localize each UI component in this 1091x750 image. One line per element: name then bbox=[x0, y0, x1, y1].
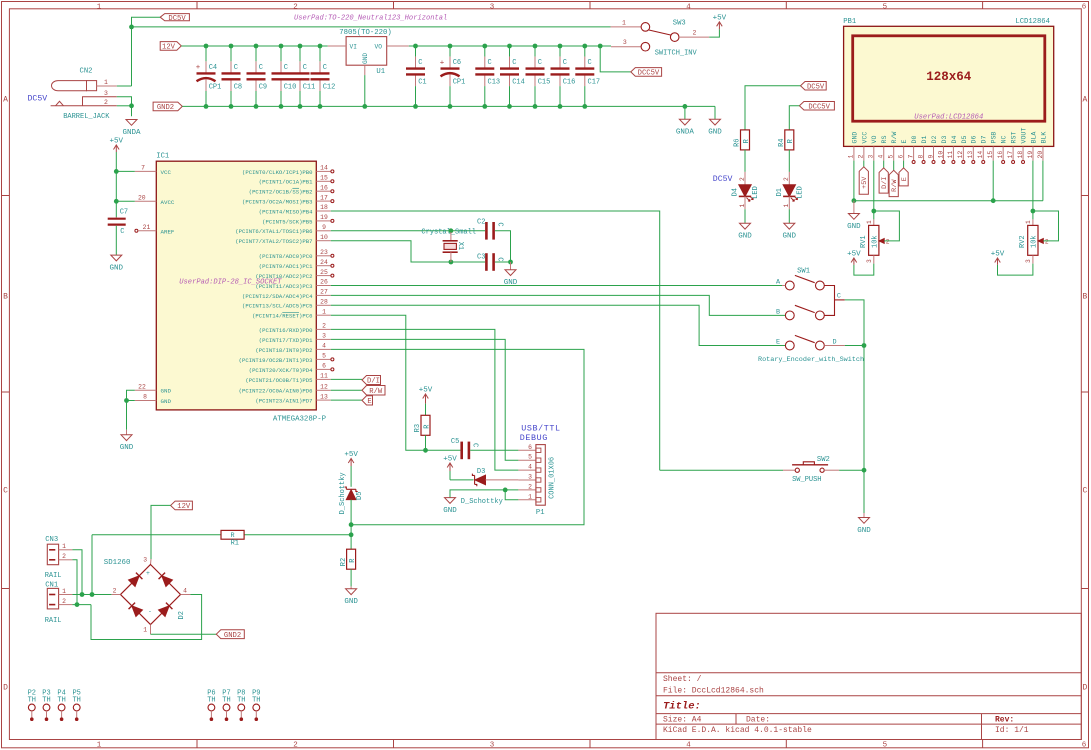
svg-text:9: 9 bbox=[927, 155, 934, 159]
svg-text:D: D bbox=[832, 339, 836, 347]
svg-text:GND: GND bbox=[738, 233, 752, 241]
svg-text:C1: C1 bbox=[418, 79, 426, 87]
global label DC5V right bbox=[801, 82, 827, 91]
svg-text:7: 7 bbox=[907, 155, 914, 159]
svg-text:C11: C11 bbox=[303, 84, 316, 92]
junction C10 top rail bbox=[279, 44, 284, 49]
svg-text:2: 2 bbox=[858, 155, 865, 159]
power symbol +5V at RV1 bbox=[853, 258, 855, 265]
svg-text:AVCC: AVCC bbox=[161, 199, 175, 206]
resistor R1 horizontal bbox=[221, 530, 244, 539]
wire RV2 pin3 to +5V bbox=[998, 264, 1033, 276]
wire PD1 to P1 pin5 bbox=[331, 339, 519, 460]
global label D/I at LCD bbox=[879, 168, 888, 193]
wire to DCC5V label bbox=[600, 46, 631, 72]
svg-text:D/I: D/I bbox=[367, 378, 380, 386]
IC1 pin 9 PB6 bbox=[316, 230, 331, 232]
IC1 pin 1 PC6 bbox=[316, 314, 331, 316]
svg-text:DCC5V: DCC5V bbox=[808, 103, 830, 111]
svg-text:R4: R4 bbox=[778, 138, 786, 146]
svg-text:KiCad E.D.A. kicad 4.0.1-stab: KiCad E.D.A. kicad 4.0.1-stable bbox=[663, 726, 812, 735]
global label DCC5V right bbox=[799, 102, 834, 111]
svg-text:+5V: +5V bbox=[344, 451, 358, 459]
junction C9 bottom rail bbox=[254, 104, 259, 109]
svg-text:1: 1 bbox=[62, 543, 66, 550]
svg-text:4: 4 bbox=[322, 343, 326, 350]
svg-text:14: 14 bbox=[977, 151, 984, 159]
svg-text:(PCINT10/ADC2)PC2: (PCINT10/ADC2)PC2 bbox=[255, 273, 312, 280]
svg-text:File: DccLcd12864.sch: File: DccLcd12864.sch bbox=[663, 687, 764, 696]
capacitor C14 bbox=[509, 46, 511, 57]
wire DC5V label to vertical bbox=[132, 17, 161, 86]
wire R1 net down to CN1 pin1 bbox=[91, 535, 93, 595]
LCD module PB1 body bbox=[844, 26, 1054, 146]
crystal X1 bbox=[450, 232, 452, 241]
LCD unconnected pin circles bbox=[912, 161, 915, 164]
junction C12 top rail bbox=[318, 44, 323, 49]
svg-text:1: 1 bbox=[1025, 220, 1032, 224]
svg-text:6: 6 bbox=[1082, 741, 1087, 749]
junction C13 top rail bbox=[482, 44, 487, 49]
svg-text:6: 6 bbox=[897, 155, 904, 159]
svg-text:USB/TTL: USB/TTL bbox=[521, 423, 560, 433]
svg-text:C17: C17 bbox=[588, 79, 601, 87]
svg-text:C: C bbox=[495, 222, 503, 226]
wire 7805 VO pin bbox=[387, 45, 409, 47]
power symbol GND below crystal bbox=[510, 262, 512, 270]
wire 12V label to bridge bbox=[151, 505, 171, 559]
power symbol GND below SW2 bbox=[863, 513, 865, 518]
capacitor C16 bbox=[559, 46, 561, 57]
capacitor C8 bbox=[230, 46, 232, 61]
svg-text:10k: 10k bbox=[872, 235, 880, 248]
svg-text:DC5V: DC5V bbox=[713, 175, 733, 184]
junction C16 bottom rail bbox=[558, 104, 563, 109]
global label +5V at LCD pin2 bbox=[859, 167, 868, 194]
capacitor C17 bbox=[584, 46, 586, 57]
svg-text:E: E bbox=[901, 177, 909, 181]
wire PD2 to D5 node bbox=[331, 349, 584, 524]
svg-text:+5V: +5V bbox=[110, 138, 124, 146]
svg-text:R/W: R/W bbox=[369, 388, 383, 396]
svg-text:B: B bbox=[776, 309, 780, 317]
svg-text:10: 10 bbox=[937, 151, 944, 159]
svg-text:4: 4 bbox=[686, 741, 691, 749]
svg-text:2: 2 bbox=[693, 30, 697, 37]
IC1 pin 23 PC0 bbox=[316, 255, 331, 257]
svg-text:UserPad:LCD12864: UserPad:LCD12864 bbox=[914, 114, 983, 122]
wire R3 to node bbox=[425, 435, 427, 450]
svg-text:GNDA: GNDA bbox=[122, 129, 141, 137]
capacitor C10 bbox=[280, 46, 282, 61]
junction C15 bottom rail bbox=[533, 104, 538, 109]
svg-text:C3: C3 bbox=[477, 254, 485, 262]
svg-text:D0: D0 bbox=[911, 136, 918, 144]
wire PC5 to SW1 E bbox=[331, 305, 786, 345]
svg-text:D4: D4 bbox=[732, 188, 740, 196]
svg-text:DC5V: DC5V bbox=[807, 83, 825, 91]
svg-text:CN1: CN1 bbox=[45, 582, 58, 590]
frame row ticks right bbox=[1081, 195, 1088, 197]
IC U1 ATMEGA328P body bbox=[156, 161, 316, 410]
global label 12V bottom bbox=[171, 501, 193, 510]
power symbol +5V at D5 bbox=[350, 459, 352, 467]
svg-text:IC1: IC1 bbox=[156, 152, 169, 160]
potentiometer RV1 bbox=[873, 219, 875, 225]
wire R6 to D4 bbox=[744, 150, 746, 172]
junction SW2 GND net bbox=[862, 468, 867, 473]
svg-text:UserPad:TO-220_Neutral123_Hori: UserPad:TO-220_Neutral123_Horizontal bbox=[294, 15, 447, 23]
svg-text:(PCINT8/ADC0)PC0: (PCINT8/ADC0)PC0 bbox=[259, 253, 313, 260]
svg-text:U1: U1 bbox=[376, 68, 385, 76]
wire LCD pin19 BLA to RV2 bbox=[1032, 161, 1034, 220]
wire 12V rail bbox=[181, 45, 327, 47]
regulator U1 7805 bbox=[346, 37, 387, 66]
svg-text:Date:: Date: bbox=[746, 715, 770, 724]
resistor R4 bbox=[785, 130, 794, 150]
svg-text:E: E bbox=[367, 398, 371, 406]
svg-text:(PCINT18/INT0)PD2: (PCINT18/INT0)PD2 bbox=[255, 347, 312, 354]
svg-text:3: 3 bbox=[868, 155, 875, 159]
svg-text:GNDA: GNDA bbox=[676, 129, 695, 137]
svg-text:26: 26 bbox=[320, 279, 328, 286]
global label GND2 top bbox=[153, 102, 182, 111]
svg-text:2: 2 bbox=[739, 177, 746, 181]
svg-text:SW1: SW1 bbox=[797, 268, 810, 276]
wire CN3 pin2 down bbox=[72, 560, 77, 605]
svg-text:7: 7 bbox=[141, 165, 145, 172]
wire DC5V label to R6 bbox=[745, 86, 801, 130]
svg-text:C: C bbox=[588, 59, 592, 67]
svg-text:LCD12864: LCD12864 bbox=[1015, 18, 1050, 26]
capacitor C12 bbox=[319, 46, 321, 61]
junction DCC5V branch bbox=[598, 44, 603, 49]
svg-text:2: 2 bbox=[62, 553, 66, 560]
svg-text:(PCINT13/SCL/ADC5)PC5: (PCINT13/SCL/ADC5)PC5 bbox=[242, 303, 313, 310]
svg-text:C: C bbox=[538, 59, 542, 67]
svg-text:(PCINT9/ADC1)PC1: (PCINT9/ADC1)PC1 bbox=[259, 263, 313, 270]
wire GND2 rail bbox=[182, 105, 715, 107]
svg-text:C: C bbox=[512, 59, 516, 67]
power symbol GND below D4 bbox=[740, 223, 751, 229]
power symbol +5V at R3 bbox=[425, 394, 427, 404]
junction C17 bottom rail bbox=[582, 104, 587, 109]
wire PB6 to crystal bbox=[331, 230, 485, 232]
switch SW2 SW_PUSH bbox=[660, 469, 783, 471]
junction C16 top rail bbox=[558, 44, 563, 49]
svg-text:C: C bbox=[495, 257, 503, 261]
IC1 pin 12 PD6 bbox=[316, 389, 331, 391]
svg-text:SW2: SW2 bbox=[817, 456, 830, 464]
svg-text:SD1260: SD1260 bbox=[104, 559, 131, 567]
svg-text:C14: C14 bbox=[512, 79, 525, 87]
wire D5 to node bbox=[350, 500, 352, 550]
svg-text:TH: TH bbox=[222, 697, 230, 705]
switch SW3 SWITCH_INV bbox=[611, 26, 642, 28]
svg-text:TH: TH bbox=[252, 697, 260, 705]
wire C5 to P1 pin6 bbox=[470, 449, 518, 451]
wire C3 to GND node bbox=[495, 261, 511, 263]
wire CN1 pin2 bbox=[72, 604, 91, 606]
frame column ticks top bbox=[196, 2, 198, 9]
svg-text:8: 8 bbox=[917, 155, 924, 159]
svg-text:3: 3 bbox=[104, 90, 108, 97]
IC1 pin 27 PC4 bbox=[316, 294, 331, 296]
junction P1 pin1 pin2 bbox=[503, 488, 508, 493]
frame column ticks bottom bbox=[196, 740, 198, 748]
svg-text:E: E bbox=[901, 140, 908, 144]
wire DC5V horizontal to SW3 pin1 bbox=[132, 26, 611, 28]
svg-text:CN3: CN3 bbox=[45, 536, 58, 544]
wire R1 row bbox=[92, 534, 221, 536]
junction C9 top rail bbox=[254, 44, 259, 49]
resistor R3 bbox=[421, 415, 430, 435]
svg-text:2: 2 bbox=[783, 177, 790, 181]
svg-text:20: 20 bbox=[1037, 151, 1044, 159]
wire SW2 to GND vertical bbox=[839, 469, 864, 471]
svg-text:R/W: R/W bbox=[891, 132, 898, 144]
diode D3 schottky bbox=[472, 474, 476, 487]
svg-text:C: C bbox=[3, 487, 8, 496]
svg-text:PSB: PSB bbox=[991, 132, 998, 144]
svg-text:25: 25 bbox=[320, 269, 328, 276]
svg-text:RAIL: RAIL bbox=[45, 572, 62, 580]
wire 7805 VI pin bbox=[328, 45, 346, 47]
wire R2 to GND bbox=[350, 569, 352, 586]
svg-text:D6: D6 bbox=[971, 136, 978, 144]
svg-text:D7: D7 bbox=[981, 136, 988, 144]
svg-text:(PCINT1/OC1A)PB1: (PCINT1/OC1A)PB1 bbox=[259, 179, 313, 186]
junction CP1 top rail bbox=[448, 44, 453, 49]
junction CP1 bottom rail bbox=[204, 104, 209, 109]
svg-text:B: B bbox=[3, 293, 8, 302]
svg-text:2: 2 bbox=[293, 741, 298, 749]
svg-text:TH: TH bbox=[42, 697, 50, 705]
svg-text:3: 3 bbox=[866, 259, 873, 263]
capacitor C2 bbox=[485, 222, 488, 240]
junction RV1 top bbox=[871, 209, 876, 214]
svg-text:(PCINT23/AIN1)PD7: (PCINT23/AIN1)PD7 bbox=[255, 398, 312, 405]
junction CN1 pin1 a bbox=[80, 592, 85, 597]
svg-text:C: C bbox=[234, 64, 238, 72]
svg-text:13: 13 bbox=[967, 151, 974, 159]
global label GND2 bottom bbox=[216, 630, 244, 639]
wire PB7 to crystal bottom bbox=[331, 241, 485, 262]
svg-text:(PCINT11/ADC3)PC3: (PCINT11/ADC3)PC3 bbox=[255, 283, 312, 290]
svg-text:VCC: VCC bbox=[861, 132, 868, 144]
svg-text:AREF: AREF bbox=[161, 228, 175, 235]
wire LCD pin4 RS bbox=[883, 161, 885, 173]
svg-text:12: 12 bbox=[320, 384, 328, 391]
svg-text:C: C bbox=[120, 228, 124, 236]
junction C8 top rail bbox=[229, 44, 234, 49]
svg-text:19: 19 bbox=[320, 214, 328, 221]
svg-text:4: 4 bbox=[528, 464, 532, 471]
svg-text:Title:: Title: bbox=[663, 701, 701, 713]
svg-text:5: 5 bbox=[888, 155, 895, 159]
IC1 pin 18 PB4 bbox=[316, 210, 331, 212]
svg-text:21: 21 bbox=[143, 224, 151, 231]
capacitor C7 bbox=[115, 217, 117, 218]
wire PC3 to SW1 A bbox=[331, 285, 786, 287]
IC1 pin 2 PD0 bbox=[316, 328, 331, 330]
svg-text:12: 12 bbox=[957, 151, 964, 159]
svg-text:5: 5 bbox=[322, 353, 326, 360]
IC1 pin GND 8 bbox=[135, 400, 157, 402]
svg-text:C: C bbox=[837, 292, 841, 300]
svg-text:7805(TO-220): 7805(TO-220) bbox=[339, 29, 392, 37]
svg-text:+5V: +5V bbox=[713, 14, 727, 22]
svg-text:+5V: +5V bbox=[847, 251, 861, 259]
svg-text:Size: A4: Size: A4 bbox=[663, 715, 702, 724]
junction CN1 pin1 b bbox=[90, 592, 95, 597]
svg-text:C7: C7 bbox=[120, 209, 128, 217]
wire C2 to corner bbox=[495, 231, 511, 262]
svg-text:C4: C4 bbox=[209, 64, 217, 72]
svg-text:(PCINT0/CLKO/ICP1)PB0: (PCINT0/CLKO/ICP1)PB0 bbox=[242, 169, 313, 176]
capacitor C15 bbox=[534, 46, 536, 57]
svg-text:(PCINT17/TXD)PD1: (PCINT17/TXD)PD1 bbox=[259, 337, 313, 344]
svg-text:RS: RS bbox=[881, 136, 888, 144]
svg-text:1: 1 bbox=[848, 155, 855, 159]
svg-text:Rotary_Encoder_with_Switch: Rotary_Encoder_with_Switch bbox=[758, 356, 864, 364]
svg-text:(PCINT2/OC1B/SS)PB2: (PCINT2/OC1B/SS)PB2 bbox=[249, 189, 313, 196]
wire CN3 pin1 down bbox=[72, 550, 82, 595]
wire +5V to D5 bbox=[350, 466, 352, 487]
svg-text:11: 11 bbox=[320, 373, 328, 380]
svg-text:(PCINT5/SCK)PB5: (PCINT5/SCK)PB5 bbox=[262, 218, 312, 225]
svg-text:PB1: PB1 bbox=[843, 18, 856, 26]
global label D/I at IC1 bbox=[362, 376, 381, 385]
junction R3 C5 bbox=[423, 448, 428, 453]
svg-text:TH: TH bbox=[207, 697, 215, 705]
svg-text:D1: D1 bbox=[921, 136, 928, 144]
svg-text:C5: C5 bbox=[451, 438, 459, 446]
svg-text:3: 3 bbox=[490, 4, 495, 12]
wire GND drop right bbox=[714, 106, 716, 119]
connector CN2 barrel jack bbox=[52, 81, 87, 91]
svg-text:X1: X1 bbox=[456, 242, 464, 250]
svg-text:2: 2 bbox=[62, 598, 66, 605]
svg-text:VOUT: VOUT bbox=[1020, 128, 1027, 144]
svg-text:BARREL_JACK: BARREL_JACK bbox=[63, 113, 110, 121]
IC1 pin 13 PD7 bbox=[316, 399, 331, 401]
wire D4 to GND bbox=[744, 209, 746, 223]
IC1 pin 4 PD2 bbox=[316, 348, 331, 350]
wire GNDA drop bbox=[684, 106, 686, 119]
wire LCD pin6 E bbox=[903, 161, 905, 173]
connector CN3 bbox=[47, 544, 58, 565]
svg-text:1: 1 bbox=[528, 493, 532, 500]
junction C14 top rail bbox=[507, 44, 512, 49]
svg-text:4: 4 bbox=[686, 4, 691, 12]
power symbol GNDA below CN2 bbox=[126, 120, 137, 126]
wire bridge pin1 stub bbox=[150, 625, 152, 635]
IC1 pin 26 PC3 bbox=[316, 285, 331, 287]
wire LCD GND bus bbox=[854, 200, 1043, 202]
svg-text:DEBUG: DEBUG bbox=[520, 433, 548, 443]
svg-text:VI: VI bbox=[350, 44, 358, 51]
svg-text:+5V: +5V bbox=[861, 176, 869, 189]
svg-text:D2: D2 bbox=[178, 611, 186, 619]
IC1 pin 15 PB1 bbox=[316, 180, 331, 182]
svg-text:D5: D5 bbox=[961, 136, 968, 144]
wire bridge pin4 stub bbox=[181, 594, 191, 596]
junction CP1 bottom rail bbox=[448, 104, 453, 109]
title block row dividers bbox=[656, 672, 1081, 674]
junction C13 bottom rail bbox=[482, 104, 487, 109]
svg-text:BLA: BLA bbox=[1030, 132, 1037, 144]
wire SW3 pin2 to +5V bbox=[709, 29, 719, 37]
svg-text:D2: D2 bbox=[931, 136, 938, 144]
svg-text:C: C bbox=[284, 64, 288, 72]
svg-text:GND: GND bbox=[362, 53, 369, 64]
svg-text:C12: C12 bbox=[323, 84, 336, 92]
wire DCC5V rail after regulator bbox=[409, 45, 611, 47]
svg-text:(PCINT14/RESET)PC6: (PCINT14/RESET)PC6 bbox=[252, 313, 312, 320]
wire CN1 pin1 to bridge bbox=[72, 594, 111, 596]
svg-text:C2: C2 bbox=[477, 219, 485, 227]
svg-text:C: C bbox=[563, 59, 567, 67]
IC1 pin 24 PC1 bbox=[316, 265, 331, 267]
wire CN2 pin1 to DC5V vertical bbox=[117, 85, 132, 87]
IC1 pin 14 PB0 bbox=[316, 170, 331, 172]
svg-text:4: 4 bbox=[183, 588, 187, 595]
svg-text:TH: TH bbox=[28, 697, 36, 705]
frame row ticks left bbox=[2, 195, 10, 197]
svg-text:RST: RST bbox=[1011, 132, 1018, 144]
svg-text:C9: C9 bbox=[259, 84, 267, 92]
svg-text:10k: 10k bbox=[1031, 235, 1039, 248]
capacitor C11 bbox=[299, 46, 301, 61]
svg-text:A: A bbox=[1082, 96, 1087, 105]
wire +5V to D3 bbox=[449, 471, 451, 480]
wire R4 to D1 bbox=[788, 150, 790, 172]
svg-text:GND: GND bbox=[161, 388, 172, 395]
svg-text:(PCINT7/XTAL2/TOSC2)PB7: (PCINT7/XTAL2/TOSC2)PB7 bbox=[235, 238, 312, 245]
svg-text:Id: 1/1: Id: 1/1 bbox=[995, 726, 1029, 735]
svg-text:2: 2 bbox=[528, 483, 532, 490]
junction GNDA drop bbox=[683, 104, 688, 109]
svg-text:1: 1 bbox=[97, 4, 102, 12]
power symbol +5V at D3 bbox=[449, 463, 451, 471]
global label 12V top bbox=[160, 42, 181, 51]
svg-text:3: 3 bbox=[490, 741, 495, 749]
svg-text:D3: D3 bbox=[941, 136, 948, 144]
svg-text:3: 3 bbox=[143, 557, 147, 564]
junction C1 bottom rail bbox=[413, 104, 418, 109]
junction 7805 GND rail bbox=[362, 104, 367, 109]
junction C11 top rail bbox=[298, 44, 303, 49]
capacitor CP1 bbox=[205, 46, 207, 61]
LED D4 bbox=[744, 172, 746, 185]
svg-text:C10: C10 bbox=[284, 84, 297, 92]
junction VO node bbox=[413, 44, 418, 49]
svg-text:12V: 12V bbox=[162, 43, 176, 51]
svg-text:C8: C8 bbox=[234, 84, 242, 92]
wire CN2 pin2 to GNDA bbox=[117, 105, 132, 107]
bridge rectifier D2 SD1260 bbox=[150, 559, 153, 565]
svg-text:16: 16 bbox=[320, 184, 328, 191]
svg-text:VO: VO bbox=[375, 44, 383, 51]
svg-text:Sheet: /: Sheet: / bbox=[663, 675, 702, 684]
capacitor C13 bbox=[484, 46, 486, 57]
wire PD5 to D/I label bbox=[331, 378, 362, 380]
svg-text:10: 10 bbox=[320, 234, 328, 241]
global label R/W at LCD bbox=[889, 170, 898, 196]
title block outline bbox=[656, 613, 1081, 739]
svg-text:GND2: GND2 bbox=[224, 632, 241, 640]
